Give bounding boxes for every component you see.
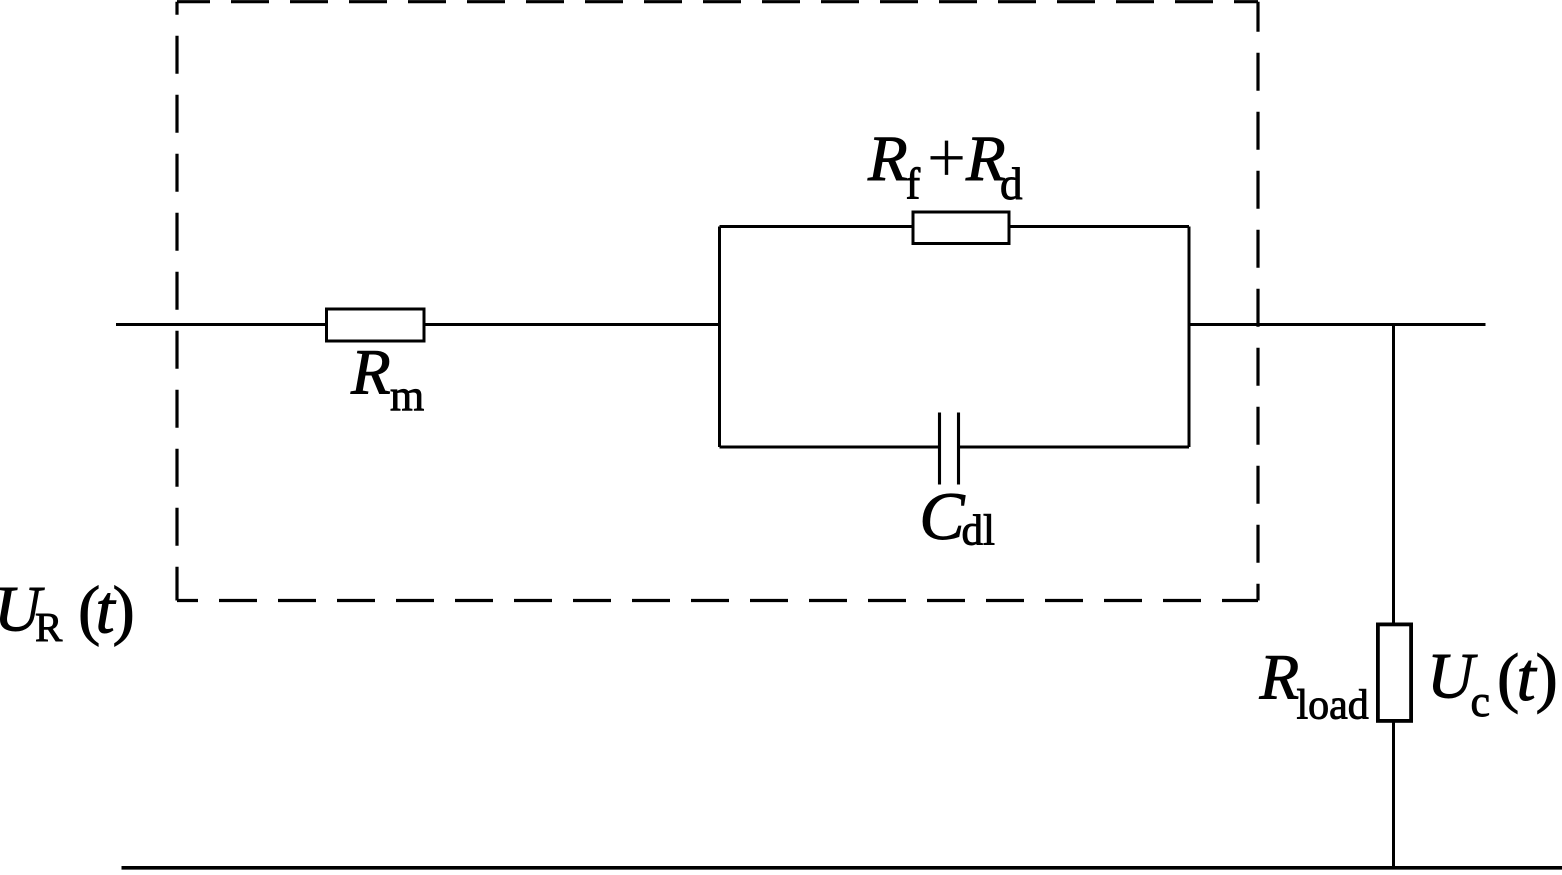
svg-text:R: R [867, 123, 908, 195]
label Rf+Rd [867, 123, 1023, 209]
svg-text:C: C [919, 478, 965, 554]
svg-text:): ) [113, 573, 135, 647]
resistor Rm (series measuring resistor) [327, 309, 425, 341]
wire: vertical wire from output node down to bottom rail [1392, 325, 1395, 868]
parallel block: right vertical edge [1188, 227, 1191, 448]
svg-text:c: c [1471, 677, 1491, 726]
capacitor Cdl (double-layer capacitance), left plate [938, 413, 941, 485]
svg-text:load: load [1297, 683, 1369, 729]
label Cdl [919, 478, 995, 555]
svg-text:R: R [35, 604, 63, 650]
parallel block: bottom edge left segment (to capacitor) [720, 446, 939, 449]
wire: bottom return rail [122, 866, 1562, 870]
label UR(t) (input voltage across sensor) [0, 572, 135, 651]
dashed enclosure box, left edge [175, 2, 178, 601]
label Rload [1259, 642, 1369, 729]
svg-text:f: f [906, 160, 921, 209]
svg-text:m: m [390, 372, 424, 421]
wire: main horizontal wire, left segment (input lead to parallel block) [116, 323, 720, 326]
dashed enclosure box, right edge [1256, 2, 1259, 601]
parallel block: bottom edge right segment (from capacitor) [960, 446, 1189, 449]
resistor Rf+Rd (faradaic + diffusion resistance) [913, 212, 1009, 244]
svg-text:): ) [1536, 641, 1558, 715]
capacitor Cdl, right plate [957, 413, 960, 485]
svg-text:t: t [1517, 639, 1538, 715]
svg-text:R: R [350, 337, 391, 409]
svg-text:dl: dl [962, 508, 996, 555]
label Rm [350, 337, 424, 421]
dashed enclosure box (sensor equivalent network), top edge [177, 0, 1258, 3]
svg-text:d: d [1000, 159, 1023, 209]
resistor Rload (load resistor) [1378, 624, 1411, 721]
svg-text:R: R [1259, 642, 1300, 714]
dashed enclosure box, bottom edge [177, 599, 1258, 602]
label Uc(t) [1427, 639, 1558, 726]
parallel block: left vertical edge [718, 227, 721, 448]
wire: main horizontal wire, right segment (block to output node) [1189, 323, 1486, 326]
parallel block: top edge (through Rf+Rd branch) [720, 225, 1190, 228]
